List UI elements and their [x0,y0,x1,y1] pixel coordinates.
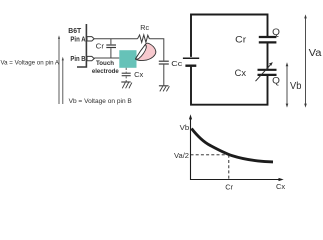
svg-text:Cx: Cx [134,70,143,79]
capacitor Cr (equivalent) [235,34,276,45]
capacitor Cx variable (equivalent) [235,62,277,81]
equivalent circuit loop wire [191,15,268,105]
pin Pin A [70,36,94,43]
battery (charge transfer source) [183,58,199,65]
svg-text:Cr: Cr [96,41,105,50]
capacitor Cr (left) [96,39,116,58]
graph decay curve [192,129,274,162]
resistor Rc [138,23,150,43]
wire pin A to resistor [94,38,137,40]
svg-text:Cx: Cx [276,182,285,191]
svg-text:Cr: Cr [225,182,233,191]
svg-text:B6T: B6T [68,26,81,35]
svg-text:Vb: Vb [180,123,190,132]
graph dashed vertical line [228,155,230,180]
pin Pin B [70,56,94,63]
svg-text:Cr: Cr [235,34,247,45]
finger [136,43,156,60]
svg-text:Pin A: Pin A [70,36,85,43]
svg-text:Va/2: Va/2 [174,151,189,160]
svg-text:Va = Voltage on pin A: Va = Voltage on pin A [1,60,60,67]
graph y-axis [189,114,192,180]
capacitor Cx (dashed, under electrode) [122,68,144,82]
svg-text:Va: Va [309,48,322,59]
annotation line Vb (arrow up to pin B) [62,57,133,105]
graph dashed level line [191,154,229,156]
svg-text:electrode: electrode [92,68,119,75]
svg-text:Cc: Cc [171,61,183,68]
touch electrode pad [92,50,137,75]
svg-text:Rc: Rc [140,23,149,32]
svg-text:Touch: Touch [96,60,114,67]
svg-text:Q: Q [272,76,280,86]
svg-text:Vb: Vb [290,81,302,92]
MCU block B6T [68,24,86,67]
arrow Vb (right side) [286,62,302,107]
capacitor Cc [159,61,183,85]
annotation line Va (arrow up to pin A) [1,35,61,104]
svg-text:Cx: Cx [235,68,247,79]
svg-text:Q: Q [272,27,280,37]
ground (under Cc) [159,86,170,92]
graph x-axis [190,178,284,181]
ground (under Cx) [121,82,132,88]
arrow Va (right side) [304,14,322,107]
svg-text:Pin B: Pin B [70,56,85,63]
svg-text:Vb = Voltage on pin B: Vb = Voltage on pin B [69,98,133,105]
wire pin B to touch electrode [94,57,119,59]
wire resistor to Cc corner [149,39,163,61]
